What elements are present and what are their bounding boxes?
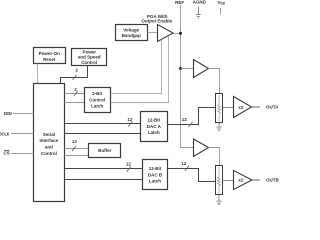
svg-text:and Speed: and Speed <box>78 55 101 60</box>
block 12-bit DAC A latch <box>141 112 168 142</box>
svg-text:Control: Control <box>89 97 105 102</box>
wire serial to DAC B latch data bus <box>65 168 143 170</box>
pin OUTA <box>266 105 279 110</box>
svg-text:12: 12 <box>182 117 188 122</box>
bus width label 2 on power-speed wire <box>73 68 79 80</box>
wire serial to buffer clock <box>65 155 89 157</box>
svg-text:SCLK: SCLK <box>0 131 10 136</box>
op-amp PGA with output enable <box>158 25 174 42</box>
svg-text:x2: x2 <box>238 105 244 110</box>
svg-text:Control: Control <box>41 151 57 156</box>
svg-text:DAC B: DAC B <box>148 172 163 177</box>
wire SCLK to serial interface <box>11 133 34 135</box>
wire serial to 2-bit latch data <box>65 93 85 95</box>
op-amp x2 output A <box>234 97 252 118</box>
block serial interface and control <box>34 84 65 202</box>
wire 2-bit latch output 1 to PGA <box>111 40 162 94</box>
ground below resistor string B <box>216 195 222 205</box>
pin SCLK <box>0 131 10 136</box>
block power-on reset <box>34 48 66 64</box>
svg-text:AGND: AGND <box>193 0 207 5</box>
bus width label 12 on DAC B output <box>181 161 189 171</box>
block buffer <box>89 144 121 158</box>
svg-text:2-Bit: 2-Bit <box>92 91 103 96</box>
svg-text:and: and <box>45 145 53 150</box>
ground below resistor string A <box>216 123 222 131</box>
svg-text:12: 12 <box>181 161 187 166</box>
svg-text:Output Enable: Output Enable <box>141 19 172 24</box>
op-amp reference buffer A <box>194 60 209 78</box>
wire serial to DAC A latch clock <box>65 133 141 135</box>
svg-text:12: 12 <box>127 117 133 122</box>
wire rail to buffer A <box>181 68 194 70</box>
wire resistor string A to x2 amp A <box>223 107 234 109</box>
svg-text:Latch: Latch <box>91 104 103 109</box>
block voltage bandgap <box>116 25 148 41</box>
svg-text:DD: DD <box>221 2 226 6</box>
wire DAC A latch output bus to resistor string A <box>168 108 216 125</box>
svg-text:Voltage: Voltage <box>123 27 139 32</box>
svg-text:Bandgap: Bandgap <box>122 33 142 38</box>
resistor string B block <box>216 166 223 195</box>
svg-text:Buffer: Buffer <box>98 148 111 153</box>
wire serial to DAC B latch clock <box>65 179 143 181</box>
wire resistor string B to x2 amp B <box>223 180 234 182</box>
bus width label 2 on 2-bit latch data <box>74 87 78 96</box>
svg-text:OUTB: OUTB <box>266 178 279 183</box>
junction dot at REF rail and PGA output <box>179 32 182 35</box>
wire VDD stub <box>220 8 222 15</box>
pin AGND <box>193 0 207 5</box>
wire bandgap to PGA <box>148 32 158 34</box>
bus width label 12 on buffer data bus <box>72 139 78 151</box>
wire CS to serial interface <box>11 153 33 155</box>
bus width label 12 on DAC A output <box>182 117 193 127</box>
svg-text:Power-On: Power-On <box>39 51 61 56</box>
wire PGA output to rail <box>173 33 180 35</box>
wire buffer A output to resistor string A top <box>209 69 220 94</box>
wire power-on reset to serial interface <box>37 64 39 84</box>
pin CS (active low, overline) <box>3 150 9 155</box>
svg-text:OUTA: OUTA <box>266 105 279 110</box>
op-amp reference buffer B <box>194 139 209 157</box>
wire serial to 2-bit latch clock <box>65 102 85 104</box>
wire DAC B latch output bus to resistor string B <box>168 169 216 182</box>
junction dot at REF rail and buffer A input <box>179 67 182 70</box>
svg-text:Reset: Reset <box>43 57 56 62</box>
ground AGND symbol <box>196 6 201 18</box>
pin DIN <box>4 111 12 116</box>
wire serial to DAC A latch data bus <box>65 123 141 125</box>
wire power and speed control to serial interface <box>61 66 88 84</box>
resistor string A block <box>216 94 223 123</box>
bus width label 12 on DAC A data bus <box>127 117 133 127</box>
svg-text:12-Bit: 12-Bit <box>149 166 162 171</box>
svg-text:Interface: Interface <box>40 138 59 143</box>
svg-text:DAC A: DAC A <box>147 124 162 129</box>
op-amp x2 output B <box>234 171 253 190</box>
svg-text:REF: REF <box>175 0 184 5</box>
svg-text:DIN: DIN <box>4 111 12 116</box>
wire x2 B output <box>252 179 260 181</box>
svg-text:Latch: Latch <box>148 130 160 135</box>
wire x2 A output <box>252 106 260 108</box>
pin VDD <box>218 0 226 6</box>
svg-text:12-Bit: 12-Bit <box>148 118 161 123</box>
pin OUTB <box>266 178 279 183</box>
wire REF rail vertical <box>181 5 194 148</box>
block power and speed control <box>72 49 107 66</box>
svg-text:Control: Control <box>81 60 97 65</box>
svg-text:x2: x2 <box>238 178 244 183</box>
svg-text:12: 12 <box>72 139 78 144</box>
label PGA With Output Enable <box>141 14 172 24</box>
block 2-bit control latch <box>85 88 111 113</box>
pin REF <box>175 0 184 5</box>
wire buffer B output to resistor string B top <box>209 148 220 166</box>
wire serial to buffer data bus <box>65 148 89 150</box>
wire 2-bit latch output 2 to PGA <box>111 36 169 102</box>
wire DIN to serial interface <box>13 113 33 115</box>
svg-text:CS: CS <box>3 151 9 156</box>
block 12-bit DAC B latch <box>143 160 168 190</box>
svg-text:Latch: Latch <box>149 179 161 184</box>
bus width label 12 on DAC B data bus <box>126 161 132 171</box>
svg-text:12: 12 <box>126 161 132 166</box>
svg-text:Serial: Serial <box>43 132 55 137</box>
